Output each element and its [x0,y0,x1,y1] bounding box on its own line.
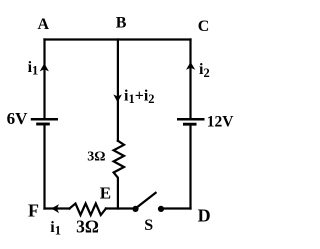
svg-text:i1: i1 [50,219,61,238]
svg-text:C: C [198,18,210,35]
svg-text:E: E [100,184,111,203]
svg-text:12V: 12V [207,114,235,131]
svg-text:D: D [198,206,211,226]
svg-text:F: F [28,201,39,221]
svg-text:i2: i2 [199,61,210,80]
svg-text:3Ω: 3Ω [76,217,99,237]
svg-text:S: S [144,217,153,234]
svg-text:i1+i2: i1+i2 [124,88,155,106]
svg-text:6V: 6V [7,109,29,128]
svg-text:i1: i1 [28,59,39,78]
svg-text:3Ω: 3Ω [87,150,105,165]
svg-text:B: B [116,15,127,32]
svg-text:A: A [38,16,50,33]
